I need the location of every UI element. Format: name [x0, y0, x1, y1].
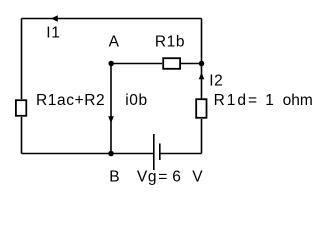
resistor R1b — [163, 58, 180, 69]
battery Vg short plate — [159, 144, 161, 161]
wire left upper — [21, 19, 23, 100]
battery Vg long plate — [153, 134, 155, 170]
resistor R1d — [196, 99, 206, 118]
wire bottom right (battery to corner) — [160, 153, 202, 155]
current arrow I1 — [51, 15, 58, 22]
current arrow I2 — [199, 72, 205, 79]
svg-text:R1b: R1b — [155, 34, 185, 51]
svg-text:i0b: i0b — [125, 92, 147, 109]
wire right upper — [201, 19, 203, 64]
wire left lower — [21, 117, 23, 154]
node junction right — [199, 61, 205, 67]
resistor R1ac+R2 — [16, 100, 26, 116]
wire right lower — [201, 119, 203, 154]
svg-text:A: A — [109, 33, 120, 50]
svg-text:B: B — [109, 168, 120, 185]
svg-text:I1: I1 — [46, 24, 60, 41]
node B — [108, 151, 114, 157]
svg-text:I2: I2 — [209, 72, 223, 89]
wire top (loop top side) — [22, 18, 202, 20]
svg-text:R1ac+R2: R1ac+R2 — [36, 92, 105, 109]
node A — [108, 61, 114, 67]
wire bottom left (to battery) — [22, 153, 154, 155]
wire middle A to B — [110, 64, 112, 154]
wire A to R1b — [111, 63, 162, 65]
current arrow i0b — [108, 116, 114, 123]
wire R1b to junction — [181, 63, 202, 65]
wire right middle (R1d to junction) — [201, 64, 203, 99]
